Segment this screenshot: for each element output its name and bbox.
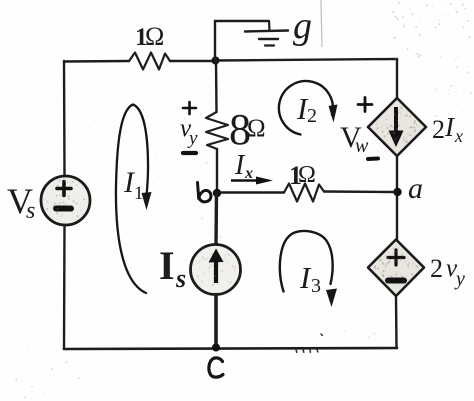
resistor 8ohm <box>206 112 228 149</box>
dependent source 2vy (diamond) <box>368 240 424 297</box>
resistor R 1ohm (top) <box>129 53 170 70</box>
ground bar 3 <box>265 44 274 46</box>
svg-text:Ω: Ω <box>247 115 266 142</box>
wire right middle <box>396 156 398 240</box>
node b dot <box>213 189 221 197</box>
scan artifact faint vertical line <box>321 0 322 47</box>
texture speckle Is <box>198 250 235 286</box>
wire b to resistor <box>220 191 284 193</box>
texture speckle Vs <box>45 181 84 217</box>
svg-text:Ω: Ω <box>145 22 164 51</box>
wire top-left horizontal <box>64 60 129 63</box>
wire middle riser upper <box>215 61 218 112</box>
2Ix arrow (down) <box>394 107 398 132</box>
Vs plus sign <box>57 182 71 196</box>
texture speckle diamond 2Ix <box>377 108 419 143</box>
wire resistor to a <box>324 190 394 193</box>
wire right side upper <box>396 59 398 98</box>
texture speckle diamond 2vy <box>375 249 417 282</box>
dependent source 2Ix (diamond) <box>368 98 426 156</box>
mesh current loop I2 <box>279 81 333 134</box>
svg-text:y: y <box>454 268 465 290</box>
voltage source Vs <box>41 176 90 225</box>
vy minus <box>183 151 196 155</box>
2vy plus sign <box>388 250 404 265</box>
scan noise misc <box>16 114 374 398</box>
node a dot <box>393 188 401 196</box>
ground bar 2 <box>259 38 278 40</box>
svg-text:y: y <box>187 128 198 149</box>
wire bottom <box>64 348 397 349</box>
ground stub <box>268 21 271 31</box>
wire ground riser <box>215 21 269 61</box>
wire top middle <box>170 60 215 62</box>
scan noise top right <box>393 3 472 116</box>
svg-text:s: s <box>26 198 35 224</box>
resistor 1ohm (middle) <box>284 184 324 202</box>
Ix arrow <box>231 179 266 181</box>
Vw minus sign <box>368 157 378 162</box>
svg-text:2: 2 <box>307 105 317 127</box>
ground bar 1 <box>245 31 288 32</box>
current source Is <box>191 245 241 295</box>
svg-text:2: 2 <box>430 254 443 283</box>
svg-text:2: 2 <box>432 115 445 144</box>
2vy minus sign <box>388 278 404 284</box>
svg-text:Ω: Ω <box>298 162 316 188</box>
bottom wire tick marks <box>296 334 322 352</box>
wire right lower <box>395 296 398 348</box>
wire left side upper <box>63 61 66 176</box>
svg-text:a: a <box>408 172 423 205</box>
svg-text:s: s <box>175 264 186 293</box>
node label b <box>198 183 211 202</box>
wire top right <box>215 59 397 61</box>
node label c <box>209 358 223 377</box>
svg-text:g: g <box>293 5 312 47</box>
wire b down to Is <box>214 193 218 244</box>
wire middle riser to b <box>216 149 218 192</box>
svg-text:x: x <box>454 126 463 146</box>
vy plus <box>183 102 196 114</box>
wire left side lower <box>63 225 66 349</box>
node junction top <box>212 57 220 65</box>
mesh current loop I3 <box>280 231 333 292</box>
mesh current loop I1 <box>116 105 148 294</box>
wire Is to bottom <box>214 295 218 349</box>
svg-text:w: w <box>355 135 369 157</box>
svg-text:3: 3 <box>311 275 321 297</box>
svg-text:I: I <box>159 243 175 288</box>
node c dot <box>212 344 220 352</box>
Vs minus sign <box>56 206 71 212</box>
svg-text:1: 1 <box>134 183 144 204</box>
plus sign above 2Ix <box>358 98 372 112</box>
Is arrow (up) <box>214 259 218 283</box>
